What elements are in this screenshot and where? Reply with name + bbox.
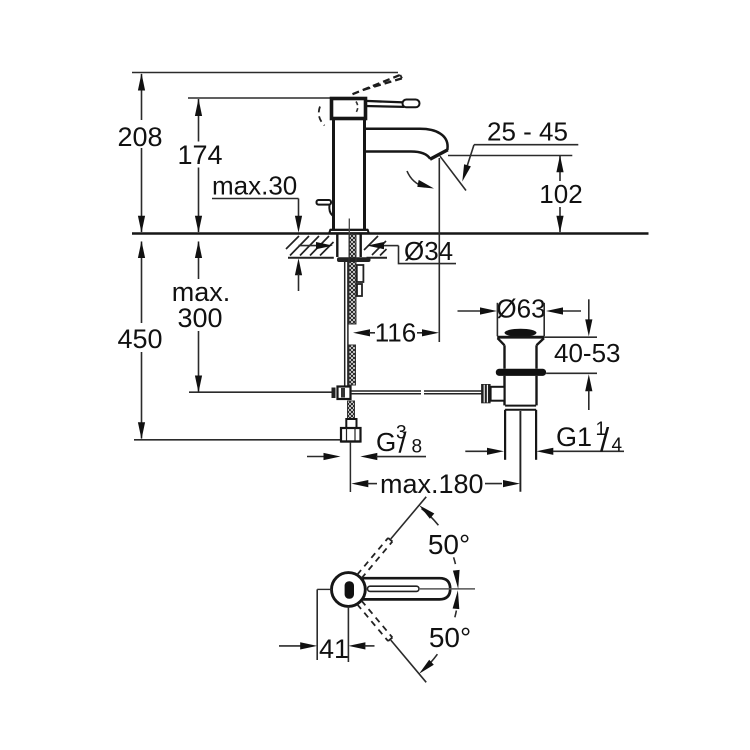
dashed lever upper line 1 [357, 538, 388, 575]
dim max.30 down arrow [295, 216, 302, 233]
dim 208 down arrow [138, 216, 145, 233]
deck bottom line left [288, 257, 334, 259]
dim 174 vertical line [198, 99, 200, 232]
dim max.180 left arrowhead [351, 480, 368, 487]
hex nut facet lines [347, 428, 356, 442]
dim 208 up arrow [138, 73, 145, 90]
pop-up pull rod curve [329, 205, 332, 216]
spray direction line [440, 156, 466, 190]
dim 25-45 underline [474, 144, 578, 146]
dim 102 vertical line [559, 156, 561, 232]
mounting nut [337, 257, 371, 262]
G3/8 hex nut [341, 428, 361, 442]
svg-text:174: 174 [177, 140, 222, 170]
spout level reference line [448, 155, 572, 157]
braided hose lower [348, 401, 355, 419]
dim 41 right extension line [347, 606, 349, 662]
dim 40-53 bottom reference line [546, 372, 597, 374]
dashed rotated-cap arc [319, 107, 325, 126]
dashed lever upper line 2 [362, 542, 393, 579]
dashed lever lower tip cap [388, 638, 392, 642]
lower arc top arrowhead [453, 590, 460, 609]
pop-up rod vertical line 2 [347, 262, 349, 390]
dim 208 vertical line [141, 74, 143, 232]
drain Ø63 left extension line [496, 303, 498, 336]
dim 102 up arrow [556, 155, 563, 172]
lever blade [403, 100, 420, 108]
dim max.300 bottom reference line [189, 391, 332, 393]
dim 41 right arrow line [365, 645, 375, 647]
dim 40-53 up arrow [585, 374, 592, 391]
dim G1 1/4 left arrowhead [487, 448, 504, 455]
svg-text:40-53: 40-53 [554, 338, 621, 368]
dim 40-53 top arrow tail [588, 299, 590, 320]
dim max.30 underline [212, 198, 299, 200]
top view lever outline [357, 578, 450, 599]
dim max.300 up arrow [195, 241, 202, 258]
countertop deck line [132, 232, 649, 235]
dim max.30 lower tail [298, 274, 300, 291]
dim max.180 right arrowhead [503, 480, 520, 487]
dim max.30 up arrow below deck [295, 258, 302, 275]
dim 40-53 down arrow [585, 319, 592, 336]
rod clamp inner bar [341, 388, 345, 398]
horizontal pop-up rod right [424, 391, 482, 394]
top view slot [345, 581, 354, 599]
drain Ø63 right extension line [543, 303, 545, 336]
dim max.180 right line [485, 483, 502, 485]
faucet base top line [330, 229, 368, 231]
dim 102 down arrow [556, 216, 563, 233]
svg-text:Ø34: Ø34 [404, 236, 453, 266]
lower 50 deg arc dash [454, 611, 457, 622]
dashed raised lever tip cap [400, 75, 402, 78]
faucet cap (cartridge housing) [332, 99, 366, 119]
dim Ø34 right arrowhead [367, 242, 384, 249]
spray angle arc arrowhead [417, 180, 434, 189]
svg-text:50°: 50° [428, 529, 470, 560]
rod clamp small block [332, 388, 336, 399]
dim G3/8 left arrowhead [324, 453, 341, 460]
braided hose middle [349, 345, 356, 385]
top view lever inner slot [368, 586, 420, 591]
faucet base flange [329, 230, 369, 233]
drain centre line [519, 411, 521, 492]
spout outlet face [430, 150, 448, 159]
drain cone right side [537, 338, 544, 345]
drain union line 2 [505, 409, 536, 411]
knob connector [491, 387, 505, 401]
dim 116 left line [369, 332, 375, 334]
drain lower body left [503, 376, 505, 406]
svg-text:450: 450 [117, 324, 162, 354]
svg-text:41: 41 [319, 634, 349, 664]
svg-text:4: 4 [612, 435, 623, 456]
dim 174 down arrow [195, 216, 202, 233]
dim Ø34 left arrow line [299, 245, 318, 247]
upper 50 deg arc tail segment [422, 509, 439, 526]
knob stripes [484, 385, 487, 403]
svg-text:208: 208 [117, 122, 162, 152]
centre line right of lever [420, 588, 475, 590]
hidden cartridge dashed arc inside cap [355, 102, 358, 115]
deck hatching [286, 236, 387, 256]
dashed lever lower line 2 [362, 601, 393, 638]
dim 41 right arrowhead [348, 642, 365, 649]
svg-text:max.180: max.180 [380, 469, 484, 499]
upper ray extension line [391, 497, 426, 539]
svg-text:300: 300 [177, 303, 222, 333]
svg-text:G: G [376, 427, 396, 457]
dim max.30 leader vertical [298, 199, 300, 218]
centre line left of circle [317, 588, 332, 590]
dim 41 left arrowhead [300, 642, 317, 649]
horizontal pop-up rod left [351, 391, 421, 394]
hose connector [346, 419, 356, 428]
svg-text:Ø63: Ø63 [496, 294, 545, 324]
dim 25-45 leader arrowhead [462, 164, 471, 181]
dim Ø34 step line [399, 246, 457, 264]
threaded shank right wall [360, 234, 362, 258]
svg-text:25 - 45: 25 - 45 [487, 117, 568, 147]
dim G1 1/4 left arrow line [465, 450, 488, 452]
dim 450 bottom reference line [134, 439, 341, 441]
drain cone left side [498, 338, 505, 345]
dim G1 1/4 underline [553, 450, 624, 452]
rod clamp body [338, 387, 351, 400]
lower arc bottom arrowhead [419, 660, 434, 674]
dashed raised lever line 2 [364, 78, 403, 90]
dim 40-53 bottom arrow tail [588, 391, 590, 411]
deck bottom line right [367, 257, 388, 259]
dim Ø63 left arrowhead [480, 307, 497, 314]
upper arc top arrowhead [419, 505, 434, 519]
svg-text:50°: 50° [429, 622, 471, 653]
dim 174 top reference line [188, 97, 331, 99]
dim Ø34 left arrowhead [316, 242, 333, 249]
rod guide upper [357, 265, 364, 282]
dim Ø63 left arrow line [458, 310, 482, 312]
dim 450 down arrow [138, 422, 145, 439]
dim 41 left extension line [316, 589, 318, 660]
threaded shank left wall [336, 234, 338, 258]
dashed lever upper tip cap [388, 538, 392, 542]
upper 50 deg arc dash [454, 557, 457, 568]
tailpipe right wall [535, 410, 537, 460]
dashed raised lever line 1 [353, 75, 401, 94]
dim G3/8 left arrow line [307, 456, 325, 458]
drain union line 1 [505, 405, 536, 407]
drain upper body left [503, 345, 505, 368]
dim max.180 left line [368, 483, 378, 485]
spout inner curve [365, 152, 431, 159]
nut bottom line [341, 440, 361, 442]
faucet body left side [332, 119, 335, 230]
dim 41 left arrow line [279, 645, 301, 647]
dashed lever lower line 1 [357, 604, 388, 641]
svg-text:116: 116 [375, 318, 416, 348]
drain knurled knob [481, 384, 491, 403]
svg-text:G1: G1 [556, 422, 592, 452]
svg-text:/: / [399, 428, 408, 460]
svg-text:max.30: max.30 [212, 171, 297, 201]
pop-up pull rod knob [317, 200, 332, 205]
lever rod top line [366, 101, 405, 103]
svg-text:8: 8 [412, 437, 423, 458]
lower 50 deg arc tail segment [423, 654, 437, 670]
drain plug cap [505, 329, 537, 337]
drain flange rim [497, 336, 544, 339]
dim 116 left arrowhead [353, 329, 370, 336]
faucet body right side [363, 119, 366, 230]
dim 40-53 top reference line [544, 336, 597, 338]
spout outer curve [365, 129, 448, 150]
upper arc bottom arrowhead [453, 570, 460, 589]
braided hose upper [349, 234, 356, 324]
faucet centre extension line [349, 442, 351, 492]
tailpipe left wall [504, 410, 506, 460]
dim Ø63 right arrowhead [546, 307, 563, 314]
spout outlet extension line [438, 158, 440, 342]
drain upper body right [535, 345, 537, 368]
svg-text:102: 102 [539, 179, 582, 209]
dim 450 up arrow [138, 241, 145, 258]
svg-text:/: / [600, 421, 610, 458]
dim G3/8 right arrowhead [360, 453, 377, 460]
lower ray extension line [391, 640, 426, 682]
top view body circle [332, 573, 366, 607]
lever rod bottom line [366, 105, 405, 108]
dim G1 1/4 right arrowhead [536, 448, 553, 455]
dim Ø63 right arrow line [563, 310, 581, 312]
spray angle arc [407, 171, 425, 187]
dim 450 vertical line [141, 242, 143, 439]
dim 208 top reference line [132, 72, 398, 74]
dim 174 up arrow [195, 99, 202, 116]
dim 25-45 leader [467, 145, 475, 168]
drain seal ring [496, 369, 546, 376]
dim 116 right arrowhead [422, 329, 439, 336]
dim max.300 vertical line [198, 242, 200, 393]
faucet axis line [348, 219, 350, 259]
dim Ø34 right arrow line [384, 245, 399, 247]
dim G3/8 underline tail [376, 456, 426, 458]
rod guide lower [357, 284, 362, 296]
pop-up rod vertical line 1 [344, 262, 346, 390]
dim 116 right line [417, 332, 423, 334]
dim max.300 down arrow [195, 376, 202, 393]
drain lower body right [535, 376, 537, 406]
